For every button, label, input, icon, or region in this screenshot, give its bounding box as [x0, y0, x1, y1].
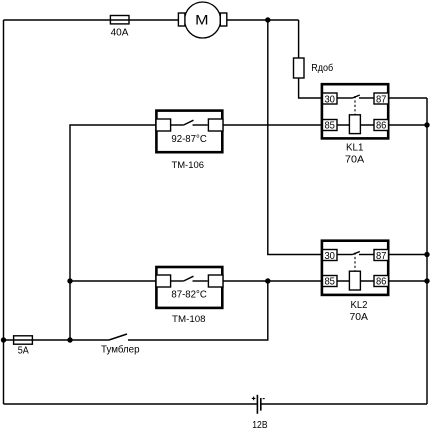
KL2 coil wires 85-86 — [337, 280, 374, 282]
KL1 pin 30 — [323, 93, 338, 105]
wire KL2 pin 86 to right rail — [389, 280, 428, 282]
TM-108 right terminal — [208, 275, 223, 287]
wire x70 rail to TM-108 left — [70, 280, 156, 282]
FU2 fuse body — [14, 336, 33, 344]
KL1 pin 85 — [323, 119, 338, 131]
wire TM-106 left to x70 rail and down — [70, 125, 156, 340]
KL1 switch contact 30-87 — [337, 97, 353, 99]
svg-text:M: M — [195, 12, 208, 27]
wire bottom right from battery to right rail — [261, 403, 427, 405]
TM-106 left terminal — [156, 119, 171, 131]
S1 switch blade — [109, 334, 127, 340]
node right rail at KL1 pin 86 — [424, 122, 429, 127]
wire KL2 pin 87 to right rail — [389, 254, 428, 256]
svg-text:TM-106: TM-106 — [171, 160, 204, 171]
Rdob resistor body — [294, 58, 305, 78]
svg-text:12В: 12В — [252, 420, 268, 431]
KL1 pin 86 — [374, 119, 389, 131]
battery minus sign — [263, 398, 265, 400]
svg-text:85: 85 — [324, 119, 335, 131]
svg-text:40A: 40A — [111, 28, 129, 39]
TM-106 right terminal — [208, 119, 223, 131]
wire KL1 pin 87 to right rail — [389, 97, 428, 99]
node A: junction on top wire — [265, 17, 270, 22]
node right rail at KL2 pin 86 — [424, 278, 429, 283]
svg-text:KL1: KL1 — [346, 143, 364, 154]
KL2 pin 30 — [323, 250, 338, 262]
svg-text:Rдоб: Rдоб — [311, 62, 333, 74]
KL2 coil — [349, 271, 360, 290]
KL2 pin 87 — [374, 250, 389, 262]
wire branch through resistor to KL1 pin 30 — [299, 20, 322, 98]
wire bottom left to battery — [4, 403, 257, 405]
thermostat TM-108 — [156, 267, 223, 325]
battery plus sign — [252, 397, 256, 399]
KL2 pin 86 — [374, 275, 389, 287]
TM-108 left terminal — [156, 275, 171, 287]
wire KL1 pin 86 to right rail — [389, 124, 428, 126]
KL1 coil wires 85-86 — [337, 124, 374, 126]
svg-text:70A: 70A — [350, 312, 369, 323]
wire left rail vertical — [3, 20, 5, 404]
node B: junction on TM-108 wire to switch branch — [265, 278, 270, 283]
motor brush left — [178, 13, 185, 26]
switch S1 Tumbler blade — [101, 334, 140, 356]
svg-text:86: 86 — [376, 275, 387, 287]
KL2 pin 85 — [323, 275, 338, 287]
svg-text:KL2: KL2 — [351, 300, 368, 311]
relay KL2 — [322, 241, 389, 323]
wire left rail through fuse 5A to switch — [4, 339, 110, 341]
KL2 switch contact 30-87 — [337, 254, 353, 256]
svg-text:85: 85 — [324, 275, 335, 287]
KL1 pin 87 — [374, 93, 389, 105]
node left rail at 5A branch — [1, 337, 6, 342]
svg-text:TM-108: TM-108 — [172, 314, 206, 325]
fuse FU1 40A — [110, 16, 129, 39]
relay KL1 — [322, 84, 389, 165]
motor M — [178, 2, 226, 38]
resistor Rdob — [294, 58, 334, 78]
wire KL1 pin 85 to TM-106 — [223, 124, 322, 126]
wire motor to resistor branch corner — [227, 19, 299, 21]
TM-108 contact — [171, 280, 184, 282]
motor brush right — [220, 13, 227, 26]
svg-text:86: 86 — [376, 119, 387, 131]
svg-text:92-87°C: 92-87°C — [171, 134, 206, 145]
battery negative plate — [260, 398, 262, 411]
TM-108 body — [156, 267, 222, 308]
battery positive plate — [256, 395, 258, 414]
KL2 body — [322, 241, 388, 295]
svg-text:30: 30 — [324, 93, 335, 105]
thermostat TM-106 — [156, 111, 223, 171]
node x70 rail at TM-108 — [67, 278, 72, 283]
svg-text:87: 87 — [376, 93, 387, 105]
wire node A down to KL2 pin 30 — [268, 20, 322, 255]
TM-106 contact — [171, 124, 184, 126]
node x70 rail at switch wire — [67, 337, 72, 342]
FU1 fuse body — [110, 16, 129, 24]
svg-text:70A: 70A — [345, 154, 364, 165]
svg-text:30: 30 — [324, 250, 335, 262]
battery GB 12V — [252, 395, 268, 431]
KL1 coil — [349, 115, 360, 134]
motor body circle — [185, 2, 221, 38]
KL1 actuator dashed link — [354, 96, 356, 115]
svg-text:Тумблер: Тумблер — [101, 344, 140, 356]
node right rail at KL2 pin 87 — [424, 252, 429, 257]
KL2 actuator dashed link — [354, 253, 356, 272]
TM-106 body — [156, 111, 222, 153]
wire switch branch up to node B — [128, 281, 268, 340]
svg-text:5A: 5A — [18, 346, 29, 357]
wire TM-108 right to KL2 pin 85 — [223, 280, 322, 282]
svg-text:87: 87 — [376, 250, 387, 262]
KL1 body — [322, 84, 388, 138]
wire top: left rail to motor — [4, 19, 180, 21]
wire right rail vertical — [426, 98, 428, 404]
svg-text:87-82°C: 87-82°C — [171, 289, 206, 300]
fuse FU2 5A — [14, 336, 33, 357]
